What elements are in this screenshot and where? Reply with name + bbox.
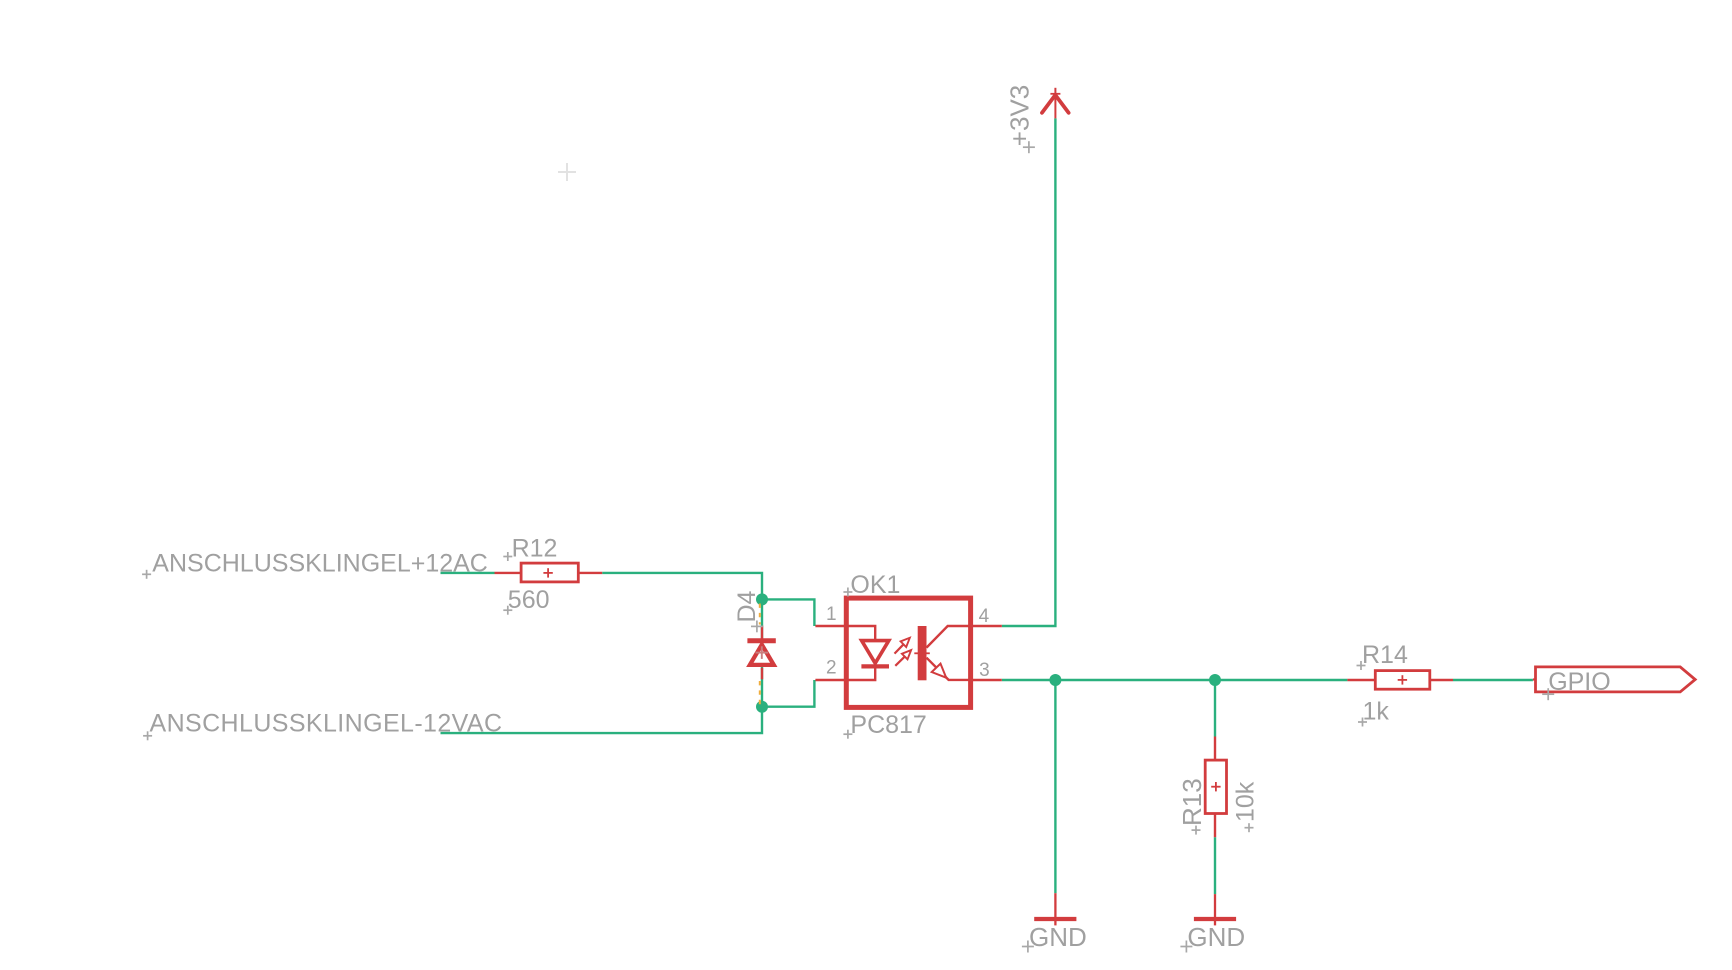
- origin cross GND left: [1022, 941, 1034, 953]
- OK1 phototransistor base bar: [918, 626, 927, 680]
- wire node bottom junction to OK1 pin 2: [762, 680, 814, 707]
- node junction pin3/GND: [1049, 674, 1061, 686]
- power +3V3 symbol: [1042, 88, 1069, 119]
- svg-text:+3V3: +3V3: [1004, 85, 1034, 146]
- pin 3 stub: [971, 679, 1002, 681]
- svg-text:ANSCHLUSSKLINGEL+12AC: ANSCHLUSSKLINGEL+12AC: [152, 549, 488, 577]
- origin cross net label top: [142, 570, 151, 579]
- origin cross +3V3: [1023, 141, 1035, 153]
- svg-text:ANSCHLUSSKLINGEL-12VAC: ANSCHLUSSKLINGEL-12VAC: [150, 710, 503, 738]
- wire net R13 to GND right: [1214, 837, 1216, 894]
- origin cross R12: [503, 552, 512, 561]
- wire net D4 vertical: [761, 599, 763, 706]
- origin cross 10k: [1245, 823, 1254, 832]
- node junction pin3/R13: [1209, 674, 1221, 686]
- wire net R12 to D4 top corner: [602, 573, 762, 600]
- op-to-coupler OK1 pins: [815, 626, 1001, 680]
- svg-text:R12: R12: [512, 534, 558, 562]
- svg-text:PC817: PC817: [850, 711, 926, 739]
- resistor R14: [1347, 671, 1453, 690]
- svg-text:4: 4: [979, 606, 990, 627]
- svg-text:10k: 10k: [1231, 781, 1259, 822]
- wire node top junction to OK1 pin 1: [762, 599, 814, 626]
- ground GND right: [1194, 894, 1236, 925]
- wire net OK1 pin 3 to R14: [1002, 679, 1348, 681]
- wire net AC1 label to R12: [441, 572, 495, 574]
- origin cross 560: [503, 606, 512, 615]
- node junction top of D4: [756, 593, 768, 605]
- origin cross net label bottom: [143, 731, 152, 740]
- optocoupler OK1 box: [846, 598, 970, 707]
- svg-text:3: 3: [979, 660, 990, 681]
- origin cross PC817: [843, 730, 852, 739]
- sheet origin cross: [558, 163, 576, 181]
- wire net junction to GND left: [1054, 680, 1056, 893]
- svg-text:GND: GND: [1029, 922, 1087, 952]
- pin 2 stub: [815, 679, 846, 681]
- svg-text:560: 560: [508, 586, 550, 614]
- origin cross D4 part: [756, 646, 769, 659]
- origin cross D4 text: [751, 621, 763, 633]
- wire net R14 to GPIO flag: [1453, 679, 1533, 681]
- ground GND left: [1034, 893, 1076, 925]
- pin 1 stub: [815, 625, 846, 627]
- wire overlap dashes D4 top: [759, 604, 761, 625]
- resistor R12: [495, 563, 603, 582]
- OK1 emitter arrowhead: [932, 664, 947, 678]
- OK1 internal LED: [846, 626, 889, 680]
- origin cross GND right: [1180, 941, 1192, 953]
- OK1 part origin cross: [914, 652, 930, 654]
- OK1 collector line: [927, 626, 971, 648]
- wire overlap dashes D4 bottom: [759, 681, 761, 705]
- wire net junction to R13: [1214, 680, 1216, 737]
- GPIO flag: [1533, 667, 1695, 692]
- OK1 light arrow 1: [895, 638, 910, 654]
- svg-text:2: 2: [826, 658, 837, 679]
- origin cross OK1: [843, 588, 852, 597]
- origin cross GPIO: [1542, 688, 1554, 700]
- pin 4 stub: [971, 625, 1002, 627]
- resistor R13: [1205, 737, 1226, 838]
- OK1 light arrow 2: [895, 650, 911, 666]
- origin cross 1k: [1358, 718, 1367, 727]
- svg-text:GND: GND: [1187, 922, 1245, 952]
- wire net bottom label to D4: [441, 707, 763, 733]
- origin cross R13: [1192, 826, 1201, 835]
- OK1 emitter line: [927, 658, 971, 680]
- origin cross R14: [1357, 661, 1366, 670]
- svg-text:1: 1: [826, 604, 837, 625]
- svg-text:GPIO: GPIO: [1548, 668, 1611, 696]
- diode D4: [747, 626, 775, 680]
- node junction bottom of D4: [756, 701, 768, 713]
- svg-text:R14: R14: [1362, 641, 1408, 669]
- wire net +3V3 to OK1 pin 4: [1002, 118, 1056, 626]
- svg-text:OK1: OK1: [850, 571, 900, 599]
- svg-text:R13: R13: [1177, 778, 1207, 826]
- svg-text:D4: D4: [733, 590, 761, 622]
